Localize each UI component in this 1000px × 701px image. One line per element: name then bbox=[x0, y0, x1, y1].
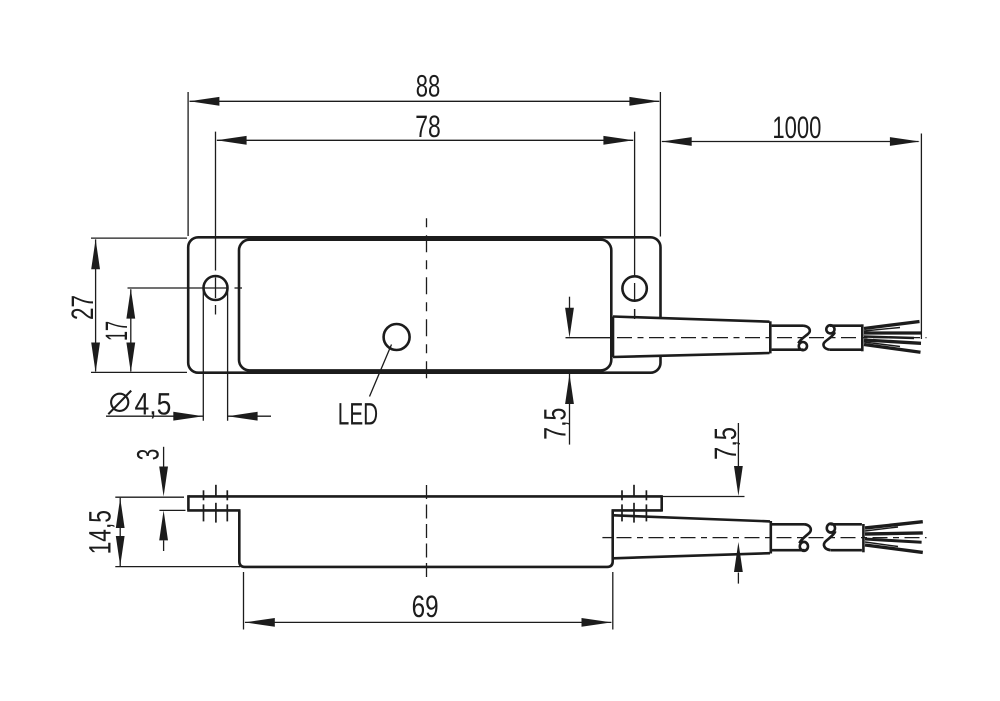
svg-text:69: 69 bbox=[412, 589, 439, 624]
svg-text:27: 27 bbox=[65, 295, 100, 320]
svg-text:1000: 1000 bbox=[772, 110, 821, 145]
svg-text:7,5: 7,5 bbox=[537, 408, 572, 440]
svg-text:4,5: 4,5 bbox=[135, 387, 172, 422]
svg-text:88: 88 bbox=[416, 69, 441, 104]
svg-text:LED: LED bbox=[338, 397, 378, 432]
svg-text:78: 78 bbox=[415, 109, 441, 144]
svg-text:17: 17 bbox=[99, 321, 134, 341]
svg-text:3: 3 bbox=[130, 449, 165, 461]
svg-text:7,5: 7,5 bbox=[708, 427, 743, 460]
svg-text:14,5: 14,5 bbox=[83, 510, 118, 554]
